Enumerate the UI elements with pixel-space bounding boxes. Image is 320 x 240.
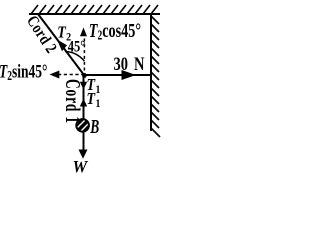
svg-text:T2cos45°: T2cos45° bbox=[89, 20, 141, 44]
svg-text:Cord 1: Cord 1 bbox=[61, 79, 85, 124]
svg-text:W: W bbox=[73, 157, 89, 176]
svg-text:T2sin45°: T2sin45° bbox=[0, 60, 47, 84]
svg-text:B: B bbox=[89, 115, 99, 137]
svg-text:45°: 45° bbox=[68, 38, 86, 56]
